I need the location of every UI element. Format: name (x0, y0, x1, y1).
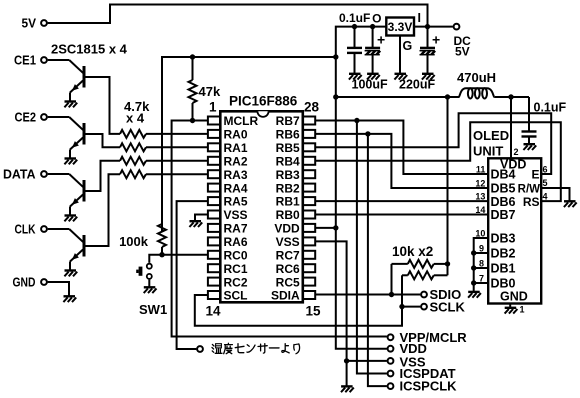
svg-text:10k x2: 10k x2 (392, 244, 433, 259)
svg-text:OLED: OLED (473, 128, 509, 143)
svg-text:220uF: 220uF (399, 78, 435, 92)
svg-text:RB5: RB5 (276, 141, 300, 155)
resistor R8 10k (402, 274, 408, 276)
resistor R2 4.7k (120, 143, 146, 151)
node 10k pull-up trunk (445, 94, 450, 99)
capacitor 0.1uF input bypass (354, 27, 356, 74)
svg-text:O: O (372, 11, 381, 25)
terminal VDD (388, 346, 394, 352)
svg-text:5V: 5V (455, 45, 470, 59)
wire 3.3V rail horizontal (162, 57, 336, 232)
svg-text:DB3: DB3 (491, 232, 516, 246)
wire RB1 to OLED DB6 (315, 200, 488, 202)
svg-text:DB4: DB4 (491, 168, 516, 182)
wire RB0 to OLED DB7 (315, 214, 488, 216)
wire 10k trunk vertical (447, 97, 449, 275)
switch SW1 (149, 255, 162, 263)
wire R1 to RA0 (146, 133, 208, 135)
resistor R7 10k (392, 263, 408, 265)
svg-text:RA2: RA2 (224, 154, 248, 168)
svg-text:DB5: DB5 (491, 181, 516, 195)
wire RB5 to OLED E (315, 113, 551, 174)
svg-text:RC5: RC5 (276, 275, 300, 289)
terminal GND (41, 279, 47, 285)
capacitor C 220uF (427, 27, 429, 74)
wire VDD pin to 3.3V trunk (315, 227, 336, 229)
terminal DC 5V (454, 24, 460, 30)
node RB6 ICSPCLK branch (365, 131, 370, 136)
pin boxes U1 right (303, 117, 315, 300)
svg-text:DB6: DB6 (491, 195, 516, 209)
svg-text:RC2: RC2 (224, 275, 248, 289)
svg-text:CE1: CE1 (14, 53, 36, 68)
wire OLED GND pin 1 (509, 304, 511, 308)
svg-text:RA6: RA6 (224, 235, 248, 249)
svg-text:UNIT: UNIT (473, 144, 503, 159)
svg-text:4: 4 (543, 192, 548, 202)
svg-text:+: + (377, 32, 385, 48)
terminal VSS (388, 358, 394, 364)
wire regulator ground pin (399, 36, 401, 74)
svg-text:VSS: VSS (224, 208, 248, 222)
svg-text:GND: GND (500, 289, 528, 303)
svg-text:RB0: RB0 (276, 208, 300, 222)
resistor R6 100k (158, 224, 166, 247)
terminal ICSPDAT (388, 371, 394, 377)
svg-text:RB4: RB4 (276, 154, 300, 168)
wire RB6 to OLED DB5 (315, 134, 488, 188)
pin labels U1 right (271, 114, 300, 303)
wire SCL route to SCLK (195, 295, 402, 326)
svg-text:RC7: RC7 (276, 249, 300, 263)
ground GND terminal (63, 296, 76, 302)
wire SDIA to SDIO (315, 294, 420, 296)
wire regulator input line to DC jack (414, 26, 453, 28)
svg-text:14: 14 (206, 304, 222, 319)
wire 5V rail to regulator input (48, 5, 428, 27)
svg-text:2SC1815 x 4: 2SC1815 x 4 (51, 42, 128, 57)
svg-text:RC0: RC0 (224, 249, 248, 263)
svg-text:DATA: DATA (3, 167, 36, 182)
svg-text:DB7: DB7 (491, 208, 516, 222)
transistor Q4 CLK (41, 226, 84, 276)
svg-text:12: 12 (475, 178, 485, 188)
resistor R5 47k pull-up (192, 57, 194, 80)
svg-text:E: E (531, 168, 539, 182)
wire 3.3V vertical trunk (336, 57, 387, 349)
svg-text:I: I (418, 11, 421, 25)
svg-text:PIC16F886: PIC16F886 (229, 94, 298, 109)
ground regulator G (394, 74, 407, 80)
wire OLED VDD pin 2 (510, 97, 512, 158)
svg-text:SDIA: SDIA (271, 289, 300, 303)
wire OLED R/W to ground (541, 188, 569, 201)
wire MCLR to VPP terminal (172, 121, 387, 337)
svg-text:100k: 100k (119, 234, 149, 249)
transistor Q2 CE2 (41, 114, 84, 164)
wire R3 to RA2 (146, 160, 208, 162)
wire OLED DB3-DB0 jumper (474, 238, 489, 292)
pin boxes U1 left (208, 117, 220, 300)
svg-text:RB3: RB3 (276, 168, 300, 182)
svg-text:2: 2 (514, 147, 519, 157)
svg-text:RS: RS (523, 195, 540, 209)
svg-text:RA5: RA5 (224, 195, 248, 209)
transistor Q1 CE1 (41, 57, 84, 107)
svg-text:0.1uF: 0.1uF (339, 11, 370, 25)
wire 100k node to RC0 (162, 254, 208, 256)
svg-text:470uH: 470uH (457, 70, 496, 85)
wire regulator output line (336, 27, 387, 57)
wire Q1 collector (84, 77, 120, 134)
svg-text:CLK: CLK (15, 222, 36, 237)
svg-text:GND: GND (13, 275, 36, 290)
wire R4 to RA3 (146, 173, 208, 175)
svg-text:SCL: SCL (224, 289, 248, 303)
svg-text:RC6: RC6 (276, 262, 300, 276)
svg-text:6: 6 (543, 165, 548, 175)
svg-text:DB2: DB2 (491, 247, 516, 261)
svg-text:15: 15 (306, 304, 322, 319)
wire Q2 collector (84, 134, 120, 147)
wire Q4 collector (84, 174, 120, 246)
svg-text:SCLK: SCLK (430, 300, 466, 315)
svg-text:CE2: CE2 (15, 110, 37, 125)
node rail to regulator (333, 54, 338, 59)
wire 470uH rail left segment (336, 96, 459, 98)
svg-text:100uF: 100uF (352, 78, 388, 92)
svg-text:3.3V: 3.3V (388, 20, 413, 34)
terminal 5V (41, 20, 47, 26)
svg-text:RA0: RA0 (224, 128, 248, 142)
wire 470uH to OLED VDD (494, 96, 529, 98)
ground OLED pin 1 (505, 308, 518, 314)
OLED internal labels (491, 158, 528, 304)
label humidity sensor Japanese text (vector glyphs) (212, 343, 300, 353)
node 3.3V to 470uH rail (333, 94, 338, 99)
svg-text:47k: 47k (199, 84, 221, 99)
wire ICSPDAT (357, 121, 387, 374)
ground VSS left (189, 221, 202, 227)
svg-text:11: 11 (476, 165, 486, 175)
wire GND terminal (48, 282, 69, 296)
svg-text:RA4: RA4 (224, 181, 248, 195)
svg-text:RB6: RB6 (276, 128, 300, 142)
wire R2 to RA1 (146, 146, 208, 148)
ground OLED R/W (564, 201, 577, 207)
svg-text:13: 13 (475, 192, 485, 202)
capacitor C 100uF (372, 27, 374, 74)
svg-text:DB1: DB1 (491, 262, 516, 276)
terminal SDIO (421, 292, 427, 298)
node RB7 ICSPDAT branch (354, 118, 359, 123)
terminal VPP/MCLR (388, 334, 394, 340)
wire SCLK stub (402, 306, 420, 308)
wire RB7 to OLED DB4 (315, 121, 488, 175)
svg-text:14: 14 (475, 205, 485, 215)
pin labels U1 left (224, 114, 259, 303)
node VSS terminal branch (344, 358, 349, 363)
wire VSS terminal stub (347, 360, 387, 362)
wire RA5 to humidity sensor (177, 201, 208, 349)
svg-text:RC1: RC1 (224, 262, 248, 276)
svg-text:MCLR: MCLR (224, 114, 259, 128)
resistor R1 4.7k (120, 130, 146, 138)
node OLED VDD drop (508, 94, 513, 99)
ground VSS bottom (341, 386, 354, 392)
svg-text:0.1uF: 0.1uF (534, 101, 567, 115)
svg-text:5V: 5V (22, 16, 37, 31)
node 5V input junction (425, 24, 430, 29)
svg-text:x 4: x 4 (126, 111, 145, 126)
wire VSS pin to bottom ground (315, 241, 346, 386)
svg-text:RA3: RA3 (224, 168, 248, 182)
svg-text:RA7: RA7 (224, 222, 248, 236)
svg-text:RA1: RA1 (224, 141, 248, 155)
svg-text:28: 28 (304, 100, 320, 115)
ground OLED data low (468, 292, 481, 298)
wire VSS left pin to ground (195, 215, 208, 222)
terminal ICSPCLK (388, 383, 394, 389)
svg-text:+: + (432, 32, 440, 48)
capacitor 0.1uF OLED (528, 97, 530, 144)
op-amp U1 PIC16F886 body (220, 111, 302, 302)
resistor R4 4.7k (120, 170, 146, 178)
node rail to 47k (190, 54, 195, 59)
svg-text:VDD: VDD (274, 222, 300, 236)
svg-text:G: G (403, 39, 413, 53)
terminal SCLK (421, 304, 427, 310)
svg-text:RB2: RB2 (276, 181, 300, 195)
wire ICSPCLK (368, 134, 387, 386)
wire RB4 to OLED RS (315, 122, 561, 201)
resistor R3 4.7k (120, 157, 146, 165)
inductor L1 470uH (459, 88, 495, 97)
svg-text:RB1: RB1 (276, 195, 300, 209)
svg-text:R/W: R/W (518, 183, 541, 195)
wire Q3 collector (84, 161, 120, 191)
svg-text:SW1: SW1 (139, 302, 167, 317)
svg-text:VSS: VSS (276, 235, 300, 249)
svg-text:1: 1 (520, 305, 525, 315)
svg-text:ICSPCLK: ICSPCLK (400, 379, 458, 394)
OLED pin numbers (475, 147, 547, 315)
svg-text:5: 5 (543, 178, 548, 188)
OLED UNIT box (488, 158, 541, 303)
regulator U2 3.3V (386, 18, 414, 36)
svg-text:RB7: RB7 (276, 114, 300, 128)
terminal humidity sensor (197, 346, 203, 352)
svg-text:1: 1 (209, 100, 217, 115)
transistor Q3 DATA (41, 171, 84, 221)
